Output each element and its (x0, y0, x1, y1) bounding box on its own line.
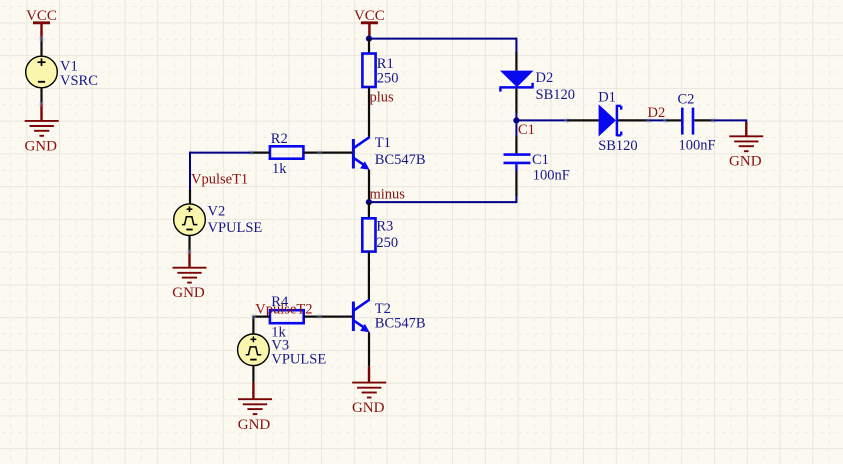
wire V3 to R4 (251, 314, 270, 334)
label T1 value BC547B (375, 152, 426, 168)
svg-text:VSRC: VSRC (60, 73, 98, 89)
resistor R2 (270, 146, 304, 158)
diode D1 schottky bar (617, 105, 621, 136)
ground GND (right, under C2) (729, 136, 763, 151)
label V1 value VSRC (60, 73, 98, 89)
svg-text:GND: GND (172, 285, 205, 301)
transistor T2 collector line (354, 300, 370, 311)
svg-text:100nF: 100nF (679, 138, 716, 154)
wire V3 bottom pin (252, 366, 254, 399)
ground GND (under T2) label (352, 400, 385, 416)
wire V2 top pin (189, 190, 191, 205)
wire R1 bottom to T1 collector (368, 87, 370, 139)
node VCC junction dot (366, 36, 372, 42)
label T1 designator (375, 135, 391, 151)
wire C2 left pin (666, 119, 681, 121)
wire D2 anode pin (515, 52, 517, 71)
capacitor C1 plates (504, 155, 531, 163)
label D1 value SB120 (598, 138, 638, 154)
wire R2 right pin to T1 base (303, 150, 352, 155)
net label VpulseT1 (191, 172, 248, 188)
transistor T2 base bar (352, 302, 355, 332)
svg-text:VPULSE: VPULSE (208, 220, 263, 236)
svg-text:GND: GND (238, 417, 271, 433)
ground GND (under T2) (352, 383, 386, 398)
label R1 designator (377, 56, 394, 72)
power port VCC (top-center) (354, 8, 385, 38)
svg-text:VPULSE: VPULSE (271, 351, 326, 367)
svg-text:C2: C2 (678, 91, 695, 107)
wire R1 top pin (368, 39, 370, 54)
diode D2 schottky bar (499, 83, 533, 92)
svg-text:BC547B: BC547B (375, 315, 426, 331)
label C1 value 100nF (533, 168, 570, 184)
wire D1 anode pin (567, 119, 599, 121)
label C2 designator (678, 91, 695, 107)
wire D2 cathode pin (515, 89, 517, 120)
svg-text:V2: V2 (208, 203, 226, 219)
label R1 value 250 (377, 71, 399, 87)
label V2 designator (208, 203, 226, 219)
ground GND (under V3) (238, 399, 272, 414)
transistor T1 emitter line (354, 158, 370, 170)
svg-text:BC547B: BC547B (375, 152, 426, 168)
label C2 value 100nF (679, 138, 716, 154)
label D1 designator (598, 90, 616, 106)
diode D1 triangle (599, 104, 616, 136)
diode D2 triangle (500, 71, 534, 88)
node minus junction dot (366, 199, 372, 205)
wire C2 right pin (694, 118, 716, 123)
svg-text:D2: D2 (536, 70, 554, 86)
svg-text:250: 250 (376, 235, 398, 251)
svg-text:plus: plus (370, 89, 395, 105)
label R3 value 250 (376, 235, 398, 251)
label V2 value VPULSE (208, 220, 263, 236)
net label VpulseT2 (255, 302, 312, 318)
svg-text:R3: R3 (376, 219, 393, 235)
wire minus horizontal (369, 201, 517, 203)
svg-text:VpulseT1: VpulseT1 (191, 172, 248, 188)
wire pin V1 pin1 to GND (39, 88, 44, 120)
transistor T2 emitter line (354, 321, 370, 333)
wire T1 emitter pin (368, 170, 370, 201)
wire T2 emitter pin (368, 332, 370, 382)
label C1 designator (532, 152, 549, 168)
voltage source V2 VPULSE symbol (174, 204, 206, 236)
svg-text:C1: C1 (532, 152, 549, 168)
net label minus (370, 186, 406, 202)
svg-text:D2: D2 (648, 105, 666, 121)
resistor R4 (270, 310, 304, 323)
power port VCC (top-left) (26, 8, 57, 38)
wire C1 bottom pin (515, 164, 517, 203)
svg-text:100nF: 100nF (533, 168, 570, 184)
ground GND (under V2) label (172, 285, 205, 301)
ground GND (under V3) label (238, 417, 271, 433)
transistor T1 base bar (352, 139, 355, 169)
ground GND (under V2) (173, 268, 207, 283)
label V3 designator (271, 337, 289, 353)
svg-text:GND: GND (352, 400, 385, 416)
voltage source V3 VPULSE symbol (238, 334, 270, 366)
wire D2 net segment (649, 118, 668, 123)
net label plus (370, 89, 395, 105)
svg-text:SB120: SB120 (536, 87, 576, 103)
wire R3 top pin (368, 202, 370, 218)
wire R4 right pin to T2 base (304, 314, 353, 319)
label R4 designator (271, 294, 289, 310)
label D2 designator (536, 70, 554, 86)
ground GND (under V1) label (24, 138, 57, 154)
wire D1 cathode pin (618, 118, 652, 123)
ground GND (right, under C2) label (729, 154, 762, 170)
wire R2 left pin (248, 150, 270, 155)
label V1 designator (60, 59, 78, 75)
wire C2 to GND (714, 119, 747, 135)
label R3 designator (376, 219, 393, 235)
label R2 designator (271, 131, 288, 147)
svg-text:250: 250 (377, 71, 399, 87)
ground GND (under V1) (25, 121, 59, 136)
svg-text:1k: 1k (272, 161, 287, 177)
node C1 junction dot (513, 117, 519, 123)
label V3 value VPULSE (271, 351, 326, 367)
label R4 value 1k (271, 324, 286, 340)
net label C1 (518, 122, 535, 138)
net label D2 wire (648, 105, 666, 121)
svg-text:GND: GND (729, 154, 762, 170)
svg-text:R2: R2 (271, 131, 288, 147)
capacitor C2 plates (682, 108, 693, 135)
svg-text:C1: C1 (518, 122, 535, 138)
wire R3 bottom to T2 collector (368, 252, 370, 301)
svg-text:GND: GND (24, 138, 57, 154)
label R2 value 1k (272, 161, 287, 177)
svg-text:SB120: SB120 (598, 138, 638, 154)
wire C1 top pin (515, 120, 517, 153)
resistor R1 (362, 54, 375, 88)
label T2 value BC547B (375, 315, 426, 331)
resistor R3 (362, 218, 375, 251)
transistor T1 collector line (354, 137, 370, 148)
svg-text:minus: minus (370, 186, 406, 202)
wire VCC horizontal to D2 branch (369, 38, 516, 52)
wire pin V1 pin2 to VCC (39, 36, 44, 56)
svg-text:D1: D1 (598, 90, 616, 106)
wire V2 bottom pin (187, 236, 192, 267)
wire C1 node to D1 (516, 118, 569, 123)
svg-text:VpulseT2: VpulseT2 (255, 302, 312, 318)
voltage source V1 VSRC symbol (26, 56, 58, 88)
label D2 value SB120 (536, 87, 576, 103)
wire VpulseT1 net (190, 152, 251, 190)
label T2 designator (375, 301, 391, 317)
svg-text:T1: T1 (375, 135, 391, 151)
